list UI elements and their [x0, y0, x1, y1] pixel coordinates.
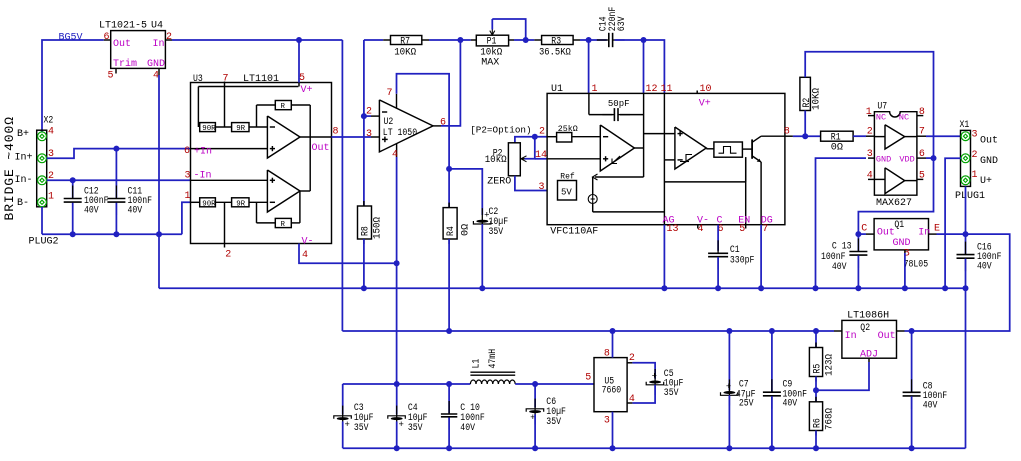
U1 current source circle: [588, 195, 597, 204]
C1 text: [730, 245, 755, 266]
label BG5V: [59, 33, 83, 44]
Q2 title: [860, 323, 870, 334]
U3 pin 2 number: [225, 250, 231, 261]
svg-text:C 13: C 13: [832, 241, 852, 252]
U7 buffer 1 output lead: [905, 136, 917, 138]
label U+: [980, 176, 992, 187]
svg-text:R5: R5: [813, 364, 824, 374]
junction dot U2 supply node: [446, 166, 452, 172]
U4 pin name Out: [113, 39, 131, 50]
wire Q1 Out node link: [858, 233, 866, 235]
X2 pad 2 number: [48, 171, 54, 182]
svg-text:NC: NC: [876, 113, 886, 123]
junction dot Q1 Out/C13/VDD: [855, 231, 861, 237]
U1 pin 5 stub: [745, 225, 747, 229]
U7 buffer 1 triangle: [885, 125, 905, 149]
U3 pin 5 internal stub: [298, 83, 300, 87]
U4 pin 4 stub: [158, 68, 160, 75]
svg-text:4: 4: [629, 394, 635, 405]
junction dot C9/bottom rail: [769, 445, 775, 451]
svg-text:Out: Out: [113, 39, 131, 50]
svg-text:12: 12: [646, 84, 658, 95]
U7 pin 1 number: [866, 107, 872, 118]
svg-text:40V: 40V: [128, 206, 143, 217]
wire L1 to U5 pin 5: [515, 383, 594, 385]
junction dot C4/bottom rail: [394, 445, 400, 451]
U3 resistor 90R (top): [200, 123, 216, 134]
label PLUG2: [29, 237, 59, 248]
U1 output transistor base bar: [751, 139, 753, 158]
U3 R bottom left lead: [257, 202, 276, 223]
U1 comparator plus sign: [678, 131, 683, 136]
U7 pin 7 number: [919, 127, 925, 138]
svg-text:40V: 40V: [460, 423, 475, 434]
junction dot R2 bottom: [802, 133, 808, 139]
X1 pad 2: [961, 154, 970, 163]
wire C3 bottom lead: [342, 421, 344, 448]
P1 value: [480, 46, 502, 58]
svg-text:3: 3: [366, 129, 372, 140]
U1 integrator minus sign: [603, 136, 608, 138]
U2 pin 4 stub: [396, 144, 398, 157]
svg-text:35V: 35V: [664, 388, 679, 399]
connector X2 body: [37, 130, 47, 207]
U4 pin 5 number: [108, 71, 114, 82]
svg-text:GND: GND: [893, 238, 911, 249]
U2 plus sign: [382, 137, 388, 143]
capacitor C10: [441, 401, 457, 430]
U2 name text: [383, 117, 417, 139]
wire C13 bottom lead: [857, 256, 859, 289]
svg-text:ZERO: ZERO: [487, 176, 511, 187]
R7 name: [400, 36, 410, 47]
wire V- rail y=384: [343, 383, 471, 385]
driver U7 MAX627 box: [874, 112, 917, 196]
svg-text:1: 1: [185, 191, 191, 202]
U1 one-shot pulse symbol: [719, 147, 737, 154]
svg-text:47mH: 47mH: [488, 349, 499, 369]
svg-text:P1: P1: [487, 36, 497, 47]
U1 DG label: [761, 215, 773, 226]
label Out: [980, 136, 998, 147]
junction dot R8/ground rail: [361, 285, 367, 291]
svg-text:0Ω: 0Ω: [831, 143, 843, 154]
U3 pin 5 number: [299, 73, 305, 84]
wire C11 top lead: [115, 149, 117, 198]
svg-text:U2: U2: [384, 117, 394, 128]
wire analog ground rail y=288: [159, 287, 966, 289]
svg-text:90R: 90R: [202, 125, 216, 133]
U1 pin 11 number: [661, 84, 673, 95]
svg-text:14: 14: [535, 150, 547, 161]
C13 text: [821, 241, 852, 273]
C9 text: [783, 379, 808, 409]
wire U4.In to R7 (top net): [172, 39, 342, 41]
wire U4 pin 4 (GND) down to bridge ground rail: [158, 75, 160, 234]
wire U3 output to U2 +input: [332, 136, 372, 138]
U4 pin name Trim: [113, 58, 137, 70]
P1 left stub: [471, 39, 477, 41]
svg-text:768Ω: 768Ω: [825, 408, 836, 430]
wire U3 pin 1 corner to ground rail: [182, 202, 191, 234]
svg-text:In: In: [845, 331, 857, 342]
U3 V- label: [302, 236, 314, 247]
wire P2 bottom to U1 pin 3: [515, 176, 547, 191]
svg-text:9R: 9R: [236, 125, 245, 133]
svg-text:8: 8: [333, 127, 339, 138]
X1 reference label: [960, 120, 970, 131]
junction dot U5 pin3/bottom rail: [610, 445, 616, 451]
svg-text:+: +: [726, 382, 731, 392]
wire C14 to U1 pins 12/11: [615, 40, 665, 93]
svg-text:[P2=Option): [P2=Option): [470, 124, 531, 135]
junction dot ADJ node: [813, 387, 819, 393]
U4 pin 6 number: [104, 32, 110, 43]
wire Q2 Out line: [905, 330, 917, 332]
wire C10 top lead: [448, 384, 450, 413]
svg-text:V+: V+: [699, 99, 711, 110]
wire U2 pin 7 supply loop to R4 node: [397, 74, 450, 169]
label 50pF: [608, 99, 630, 109]
U4 pin 2 stub: [165, 39, 172, 41]
wire U1 pin 1 lead: [588, 40, 590, 93]
wire ground rail drop to analog ground rail: [158, 234, 160, 288]
R7 right stub: [422, 39, 429, 41]
svg-text:123Ω: 123Ω: [825, 354, 836, 376]
L1 core lines: [470, 372, 515, 375]
U4 pin 6 stub: [104, 39, 111, 41]
svg-text:7: 7: [387, 88, 393, 99]
junction dot P1 wiper/right terminal: [523, 37, 529, 43]
wire P1 to R3: [514, 39, 534, 41]
U1 one-shot right lead: [742, 148, 752, 150]
wire C8 bottom lead: [911, 396, 913, 448]
wire R4 top lead: [448, 169, 450, 208]
inductor L1 coil: [470, 380, 515, 384]
wire R5 to ADJ node: [815, 377, 817, 402]
wire C7 bottom lead: [728, 395, 730, 448]
R8 stubs: [363, 201, 365, 244]
U5 pin 2 number: [629, 353, 635, 364]
U3 feedback resistor R (bottom): [275, 218, 291, 229]
svg-text:40V: 40V: [977, 262, 992, 273]
wire R8 to analog ground rail: [363, 239, 365, 288]
U1 input resistor 25k box: [557, 126, 579, 142]
U7 pin 5 number: [919, 170, 925, 181]
U3 wire 9R to top amp -: [249, 126, 267, 128]
U3 R top right lead: [291, 105, 310, 137]
U3 bottom op-amp triangle: [267, 170, 300, 212]
U3 Out label: [312, 143, 330, 154]
X1 pad 2 number: [972, 150, 978, 161]
R4 value rotated: [461, 224, 472, 236]
wire positive supply rail y=331: [342, 330, 834, 332]
U3 resistor 90R (bottom): [200, 198, 216, 209]
junction dot V- rail/C10: [446, 381, 452, 387]
U1 emitter to DG vertical: [760, 162, 762, 225]
U4 title: [99, 21, 163, 32]
svg-text:10KΩ: 10KΩ: [394, 47, 416, 58]
wire C6 top lead: [534, 384, 536, 408]
svg-text:U1: U1: [551, 84, 563, 95]
Q2 ADJ label: [860, 349, 878, 360]
R3 name: [551, 36, 561, 47]
op-amp U2 LT1050 triangle: [379, 100, 433, 152]
svg-text:V-: V-: [302, 236, 314, 247]
junction dot C11 / ground rail: [113, 231, 119, 237]
junction dot V- net: [394, 260, 400, 266]
svg-text:Ref: Ref: [560, 173, 575, 182]
svg-text:2: 2: [225, 250, 231, 261]
wire U2 pin 4 V- down: [396, 157, 398, 263]
U3 feedback resistor R (top): [275, 101, 291, 112]
wire U1 pin 12 lead: [643, 40, 645, 93]
wire Q1 In to U+ node: [937, 233, 966, 235]
U3 internal V+ rail: [198, 86, 298, 88]
U1 EN label: [738, 215, 750, 226]
U1 pin 8 internal wire: [761, 135, 785, 137]
wire U1 DG pin 7 to ground rail: [760, 225, 762, 289]
U3 pin 8 number: [333, 127, 339, 138]
P2 wiper wire: [525, 137, 535, 159]
svg-text:25V: 25V: [739, 398, 754, 409]
U1 pin 7 number: [762, 224, 768, 235]
U1 pin 2 number: [539, 126, 545, 137]
U7 name MAX627: [876, 198, 912, 209]
U1 name VFC110AF: [550, 226, 598, 237]
svg-text:9R: 9R: [236, 200, 245, 208]
R1 value: [831, 143, 843, 154]
U3 pin 1 internal wire: [191, 201, 200, 203]
capacitor C9: [763, 379, 781, 409]
capacitor C11: [107, 186, 125, 216]
svg-text:B-: B-: [17, 198, 29, 209]
svg-text:1: 1: [48, 192, 54, 203]
junction dot R4/supply rail: [446, 328, 452, 334]
wire bridge ground rail y=234: [42, 233, 182, 235]
U5 name: [602, 377, 622, 397]
svg-text:10: 10: [700, 84, 712, 95]
svg-text:8: 8: [784, 127, 790, 138]
U1 pin 4 number: [698, 224, 704, 235]
svg-text:R: R: [281, 221, 286, 229]
R3 value: [539, 47, 571, 58]
U5 pin 8 number: [604, 349, 610, 360]
U2 pin 2 stub: [371, 115, 379, 117]
wire U+ node over to Q2 output: [916, 234, 1010, 331]
U4 pin 2 number: [166, 32, 172, 43]
label In-: [15, 175, 33, 186]
svg-text:+: +: [345, 420, 350, 430]
X1 pad 1: [961, 176, 970, 185]
svg-text:8: 8: [604, 349, 610, 360]
wire C11 bottom lead: [115, 203, 117, 234]
capacitor C1: [708, 240, 728, 269]
capacitor C3 (polarized): [334, 406, 352, 432]
regulator Q1 78L05 box: [874, 219, 928, 250]
capacitor C2 (polarized): [473, 208, 491, 234]
U1 integrator triangle: [600, 125, 634, 171]
capacitor C4 (polarized): [388, 406, 406, 432]
svg-text:BRIDGE ~400Ω: BRIDGE ~400Ω: [2, 116, 17, 220]
U3 pin 4 number: [302, 250, 308, 261]
svg-text:Q1: Q1: [894, 220, 904, 231]
junction dot R3/U1 pin 1: [586, 37, 592, 43]
wire C7 top lead: [728, 331, 730, 390]
resistor R7 box: [391, 36, 422, 45]
P2 wiper arrowhead: [521, 156, 527, 162]
U1 pin 14 internal wire: [547, 158, 600, 160]
resistor R4 box: [443, 208, 457, 239]
U1 comparator hysteresis symbol: [680, 155, 692, 162]
junction dot U7 GND/ground rail: [813, 285, 819, 291]
U1 transistor emitter with arrow: [752, 156, 761, 162]
U3 wire 90R to 9R (bottom): [215, 201, 231, 203]
U1 AG label: [663, 215, 675, 226]
svg-text:78L05: 78L05: [904, 260, 929, 271]
capacitor C8: [903, 379, 921, 409]
Q1 name 78L05: [904, 260, 929, 271]
C11 value text: [128, 187, 153, 217]
U1 current source line with arrow: [593, 174, 644, 180]
U7 pin 3 number: [867, 149, 873, 160]
capacitor 50pF internal: [602, 108, 630, 121]
svg-text:MAX: MAX: [481, 57, 499, 68]
U2 pin 3 stub: [371, 136, 379, 138]
svg-text:150Ω: 150Ω: [373, 217, 384, 239]
svg-text:5: 5: [585, 372, 591, 383]
svg-text:In+: In+: [15, 152, 33, 163]
junction dot In- / C12: [70, 177, 76, 183]
wire C8 top lead: [911, 331, 913, 392]
U2 pin 7 number: [387, 88, 393, 99]
wire U3 pin 4 V- to negative net: [299, 244, 397, 264]
C2 value text: [489, 207, 509, 238]
junction dot Q1 B/ground rail: [902, 285, 908, 291]
U7 pin 4 stub: [868, 178, 874, 180]
svg-text:3: 3: [972, 130, 978, 141]
svg-text:4: 4: [302, 250, 308, 261]
VFC U1 box: [547, 93, 785, 224]
potentiometer P2 box: [508, 143, 520, 176]
capacitor C5 (polarized): [646, 369, 664, 395]
U1 title: [551, 84, 563, 95]
U3 internal left vertical: [197, 87, 199, 128]
wire C16 bottom lead: [965, 259, 967, 289]
U7 pin 2 stub: [866, 135, 874, 137]
potentiometer P1 box: [476, 35, 508, 46]
svg-text:40V: 40V: [832, 262, 847, 273]
X2 pad 3: [38, 154, 47, 163]
wire X1 GND to ground rail: [945, 158, 961, 288]
wire R1 to U7 pin 2: [853, 135, 866, 137]
R5 name rotated: [813, 364, 824, 374]
junction dot U2 pin 2: [361, 113, 367, 119]
wire R6 bottom lead: [815, 431, 817, 449]
X2 pad 3 number: [48, 149, 54, 160]
U3 output internal wires: [300, 137, 332, 191]
R2 name rotated: [802, 98, 813, 108]
wire bottom ground rail y=448: [343, 447, 966, 449]
junction dot C14/U1 pin 12: [641, 37, 647, 43]
charge pump U5 7660 box: [594, 358, 627, 412]
U4 pin 5 stub: [115, 68, 117, 73]
junction dot C8/bottom rail: [909, 445, 915, 451]
wire C10 bottom lead: [448, 418, 450, 449]
wire U5 pin 2 to C5: [632, 363, 655, 379]
voltage reference U4 LT1021-5 box: [111, 31, 166, 69]
svg-text:330pF: 330pF: [730, 255, 755, 266]
svg-text:B+: B+: [17, 129, 29, 140]
wire X2 pad 1 (B-) down to ground rail: [41, 207, 43, 234]
svg-text:90R: 90R: [202, 200, 216, 208]
P2 name: [493, 148, 503, 159]
U1 pin 14 number: [535, 150, 547, 161]
svg-text:In: In: [153, 39, 165, 50]
U7 pin 2 number: [867, 127, 873, 138]
svg-text:40V: 40V: [923, 400, 938, 411]
resistor R2 box: [800, 77, 811, 110]
U3 pin 1 number: [185, 191, 191, 202]
svg-text:Out: Out: [980, 136, 998, 147]
U3 pin 7 internal wire: [224, 82, 226, 128]
svg-text:7660: 7660: [602, 385, 622, 396]
wire R7 left link: [364, 39, 383, 41]
U3 pin 3 number: [185, 170, 191, 181]
U7 pin 6 number: [919, 149, 925, 160]
capacitor C13: [849, 239, 867, 269]
P1 right stub: [509, 39, 514, 41]
U1 pin 8 stub: [785, 135, 793, 137]
U1 AG internal vertical: [663, 160, 665, 225]
svg-text:6: 6: [440, 118, 446, 129]
U7 buffer 2 output lead: [905, 180, 917, 182]
U1 comparator triangle: [675, 127, 706, 169]
svg-text:C: C: [861, 224, 867, 235]
U7 pin 4 number: [867, 170, 873, 181]
U3 +In label: [194, 146, 212, 157]
wire U2 output up to R7 right: [441, 40, 460, 126]
junction dot supply/U5 pin 8: [610, 328, 616, 334]
U1 pin 1 number: [592, 84, 598, 95]
wire U1 pin 2 to P2 top: [515, 137, 547, 143]
wire VDD node down to 78L05 output: [858, 158, 933, 234]
label In+: [15, 152, 33, 163]
junction dot U1 pin 2 node: [532, 134, 538, 140]
U5 pin 4 number: [629, 394, 635, 405]
U1 pin 6 number: [718, 224, 724, 235]
X2 pad 4 number: [48, 127, 54, 138]
svg-text:X1: X1: [960, 120, 970, 131]
U3 pin 2 internal wire: [224, 202, 226, 247]
svg-text:Out: Out: [877, 227, 895, 238]
svg-text:5: 5: [919, 170, 925, 181]
wire ground rail down right edge: [965, 288, 967, 448]
junction dot R7/U2 feedback: [457, 37, 463, 43]
svg-text:63V: 63V: [617, 16, 628, 31]
X1 pad 3: [961, 132, 970, 141]
svg-text:3: 3: [185, 170, 191, 181]
svg-text:V+: V+: [301, 85, 313, 96]
U1 pin 13 number: [667, 224, 679, 235]
U7 pin 1 stub: [868, 115, 874, 117]
wire C6 bottom lead: [534, 414, 536, 448]
R8 name rotated: [361, 226, 372, 236]
wire C13 top lead: [857, 234, 859, 251]
U1 comparator minus sign: [678, 159, 683, 161]
svg-text:Out: Out: [312, 143, 330, 154]
svg-text:+: +: [399, 420, 404, 430]
